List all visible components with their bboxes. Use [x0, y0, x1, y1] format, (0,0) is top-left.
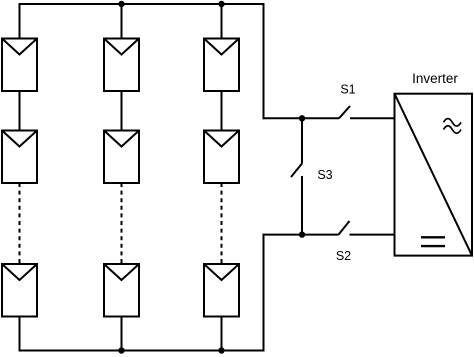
- switch S1 blade: [339, 106, 350, 118]
- wire: S3 upper segment: [301, 118, 303, 163]
- inverter U1 diagonal: [395, 94, 473, 256]
- wire: string2 bottom drop: [121, 317, 123, 351]
- switch S3 blade: [291, 164, 302, 178]
- PV module string1 module1: [2, 39, 37, 92]
- svg-text:S2: S2: [336, 249, 351, 263]
- wire: string1 module1-module2: [19, 91, 21, 131]
- wire: bottom bus (negative DC bus): [20, 350, 264, 352]
- junction dot: node B (bottom feed / S3): [299, 231, 305, 237]
- junction dot: bottom bus / string 2: [118, 347, 124, 353]
- inverter U1 AC symbol: [444, 119, 462, 134]
- PV module string2 module1: [104, 39, 139, 92]
- wire: bottom feed to switch S2: [263, 234, 339, 236]
- wire: string3 module1-module2: [221, 91, 223, 131]
- wire: top bus right vertical: [263, 4, 265, 118]
- switch S2 blade: [339, 221, 350, 235]
- inverter U1 DC symbol: [421, 237, 445, 246]
- PV module string2 moduleN: [104, 264, 139, 317]
- wire: string 3 top drop: [221, 4, 223, 39]
- junction dot: top bus / string 2: [118, 1, 124, 7]
- wire: string1 dashed continuation: [19, 183, 21, 264]
- wire: string 1 top drop: [19, 4, 21, 39]
- PV module string1 module2: [2, 131, 37, 184]
- wire: S3 lower segment: [301, 176, 303, 235]
- wire: string2 module1-module2: [121, 91, 123, 131]
- wire: string3 bottom drop: [221, 317, 223, 351]
- wire: string3 dashed continuation: [221, 183, 223, 264]
- junction dot: bottom bus / string 3: [218, 347, 224, 353]
- wire: string2 dashed continuation: [121, 183, 123, 264]
- svg-text:S3: S3: [317, 168, 332, 182]
- svg-text:Inverter: Inverter: [412, 71, 458, 86]
- wire: bottom bus right vertical: [263, 235, 265, 351]
- PV module string3 module2: [204, 131, 239, 184]
- PV module string3 module1: [204, 39, 239, 92]
- wire: top bus (positive DC bus): [20, 3, 264, 5]
- wire: string 2 top drop: [121, 4, 123, 39]
- junction dot: top bus / string 3: [218, 1, 224, 7]
- PV module string3 moduleN: [204, 264, 239, 317]
- wire: switch S1 to inverter: [350, 117, 395, 119]
- wire: string1 bottom drop: [19, 317, 21, 351]
- inverter U1 box: [395, 94, 473, 256]
- junction dot: node A (top feed / S3): [299, 115, 305, 121]
- PV module string2 module2: [104, 131, 139, 184]
- svg-text:S1: S1: [340, 83, 355, 97]
- PV module string1 moduleN: [2, 264, 37, 317]
- wire: switch S2 to inverter: [350, 234, 395, 236]
- wire: top feed to switch S1: [263, 117, 340, 119]
